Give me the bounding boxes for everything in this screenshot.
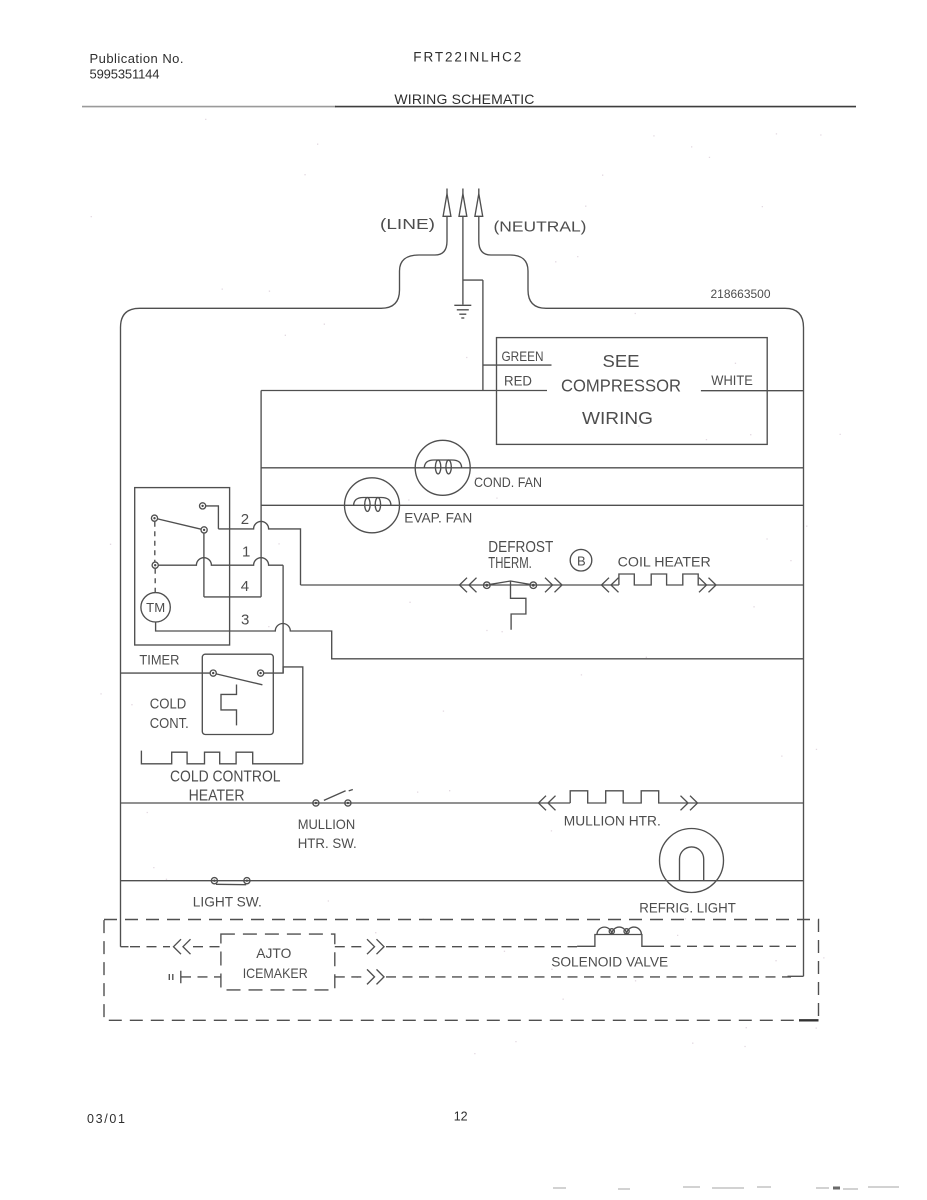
timer mechanical link (dashed) xyxy=(154,522,156,562)
wire: cold control feed from left border xyxy=(121,672,211,674)
svg-text:Publication No.: Publication No. xyxy=(90,51,184,66)
svg-text:12: 12 xyxy=(454,1110,468,1124)
svg-text:03/01: 03/01 xyxy=(87,1112,125,1126)
svg-text:ICEMAKER: ICEMAKER xyxy=(243,965,308,981)
svg-text:COLD: COLD xyxy=(150,696,187,713)
wire: line cord from left prong into top border xyxy=(381,217,447,309)
right border bottom hook xyxy=(788,975,804,977)
svg-text:RED: RED xyxy=(504,372,532,388)
connector chevrons left of mullion heater xyxy=(539,796,556,811)
wire: condenser fan line xyxy=(261,467,803,469)
timer terminal dot B xyxy=(151,515,157,521)
timer terminal dot C xyxy=(201,527,207,533)
wire: dot C drop xyxy=(203,533,205,597)
wire: red line xyxy=(261,390,547,392)
svg-text:COLD CONTROL: COLD CONTROL xyxy=(170,769,281,786)
svg-text:WHITE: WHITE xyxy=(711,372,753,388)
wire: terminal 3 line from TM with hop xyxy=(156,622,804,659)
wire: light line xyxy=(121,880,804,882)
wire: terminal 4 line xyxy=(204,596,261,598)
wire: evaporator fan line xyxy=(261,504,803,506)
svg-text:(NEUTRAL): (NEUTRAL) xyxy=(494,219,587,236)
plug prong ground (middle) xyxy=(459,189,467,217)
svg-text:WIRING: WIRING xyxy=(582,408,653,428)
svg-text:218663500: 218663500 xyxy=(711,287,771,301)
svg-text:GREEN: GREEN xyxy=(502,348,544,364)
svg-text:AJTO: AJTO xyxy=(256,945,291,961)
wire: neutral cord from right prong into top border xyxy=(479,217,546,309)
icemaker dashed box xyxy=(221,934,335,990)
svg-text:HTR. SW.: HTR. SW. xyxy=(298,835,357,851)
wire: green branch from ground stem xyxy=(463,279,483,281)
lamp REFRIG. LIGHT xyxy=(660,829,724,893)
timer terminal dot D xyxy=(152,562,158,568)
connector chevrons right of defrost therm xyxy=(545,578,562,593)
ground symbol xyxy=(454,305,471,318)
svg-text:1: 1 xyxy=(242,544,250,561)
svg-text:TM: TM xyxy=(146,601,165,615)
wire: mullion heater line xyxy=(121,802,571,804)
wire: cold control out to heater drop xyxy=(264,667,303,764)
compressor box U1 xyxy=(497,338,768,445)
svg-text:FRT22INLHC2: FRT22INLHC2 xyxy=(413,49,521,64)
timer switch blade B-C xyxy=(158,519,201,529)
light switch dot right xyxy=(244,878,250,884)
connector chevrons left of defrost therm xyxy=(460,578,477,593)
plug prong line (left) xyxy=(443,189,451,217)
defrost therm blade xyxy=(490,581,530,584)
cold control bellows element xyxy=(221,685,237,726)
wire: left border hook into icemaker xyxy=(121,946,129,948)
svg-text:THERM.: THERM. xyxy=(488,555,532,572)
defrost therm element xyxy=(511,581,526,630)
connector chevrons out B xyxy=(367,969,384,984)
svg-text:EVAP. FAN: EVAP. FAN xyxy=(404,510,472,526)
svg-text:COND. FAN: COND. FAN xyxy=(474,474,542,490)
svg-text:CONT.: CONT. xyxy=(150,715,189,732)
fresh food section dashed box xyxy=(104,920,819,1021)
wire: ground stem from middle prong xyxy=(462,217,464,305)
wire: red drop bus xyxy=(260,391,262,597)
timer box xyxy=(135,488,230,645)
wire: green drop to red line xyxy=(482,280,484,390)
main outline: top border right + right border xyxy=(546,308,804,976)
svg-text:WIRING SCHEMATIC: WIRING SCHEMATIC xyxy=(394,91,534,107)
mullion heater resistor xyxy=(570,791,803,803)
light switch dot left xyxy=(211,878,217,884)
cold control blade xyxy=(216,674,262,685)
mullion switch dot right xyxy=(345,800,351,806)
wire: icemaker feed dashed left xyxy=(130,946,170,948)
svg-text:SEE: SEE xyxy=(603,351,640,371)
wire: icemaker out B dashed xyxy=(335,976,362,978)
cold control box xyxy=(202,654,273,734)
main outline: top border left + left border xyxy=(121,308,382,946)
svg-text:(LINE): (LINE) xyxy=(380,216,435,233)
wire: terminal 2 lead xyxy=(206,506,219,529)
svg-text:REFRIG. LIGHT: REFRIG. LIGHT xyxy=(639,899,736,915)
connector chevrons into icemaker xyxy=(174,939,191,954)
wire: dashed run B to right border xyxy=(386,976,791,978)
defrost therm dot right xyxy=(530,582,537,589)
svg-text:HEATER: HEATER xyxy=(189,788,245,805)
wire: solenoid to right border dashed xyxy=(654,945,800,947)
water valve terminal symbol xyxy=(169,971,181,984)
svg-text:B: B xyxy=(577,554,586,569)
wire: icemaker line B dashed left xyxy=(181,976,221,978)
wire: defrost / coil heater line xyxy=(301,584,619,586)
svg-text:4: 4 xyxy=(241,578,249,595)
wire: white lead from compressor box to right border xyxy=(701,390,804,392)
coil heater resistor xyxy=(619,574,804,585)
cold control dot left xyxy=(210,670,216,676)
connector chevrons right of mullion heater xyxy=(681,796,698,811)
wire: icemaker feed dashed right xyxy=(193,946,221,948)
publication header text xyxy=(90,49,535,107)
svg-text:MULLION HTR.: MULLION HTR. xyxy=(564,812,661,828)
connector chevrons right of coil heater xyxy=(699,578,716,593)
svg-text:SOLENOID VALVE: SOLENOID VALVE xyxy=(551,954,668,970)
motor EVAP. FAN xyxy=(345,478,400,533)
terminal B circle xyxy=(570,549,592,571)
svg-text:COMPRESSOR: COMPRESSOR xyxy=(561,376,681,396)
solenoid valve coil xyxy=(577,927,654,946)
dashed box dark corner xyxy=(799,1019,819,1021)
timer motor TM xyxy=(141,593,170,622)
connector chevrons left of coil heater xyxy=(602,578,619,593)
wire: terminal 1 drop to cold control xyxy=(282,565,284,673)
timer terminal dot A xyxy=(200,503,206,509)
plug prong neutral (right) xyxy=(475,189,483,217)
mullion switch dot left xyxy=(313,800,319,806)
wire: green lead into compressor box xyxy=(483,364,552,366)
svg-text:MULLION: MULLION xyxy=(298,816,356,832)
cold control dot right xyxy=(258,670,264,676)
mullion switch blade xyxy=(324,790,353,801)
svg-text:5995351144: 5995351144 xyxy=(90,67,160,82)
wire: dashed run to solenoid xyxy=(386,946,577,948)
connector chevrons out A xyxy=(367,939,384,954)
svg-text:LIGHT SW.: LIGHT SW. xyxy=(193,893,262,909)
svg-text:2: 2 xyxy=(241,511,249,528)
light switch blade xyxy=(216,883,246,885)
scan speckle xyxy=(91,119,841,1053)
wire: terminal 1 line with hops xyxy=(158,558,283,565)
scan noise bottom xyxy=(553,1187,899,1189)
wire: icemaker out A dashed xyxy=(335,946,364,948)
cold control heater resistor xyxy=(141,751,302,764)
svg-text:COIL HEATER: COIL HEATER xyxy=(618,553,711,569)
svg-text:DEFROST: DEFROST xyxy=(488,539,553,556)
motor COND. FAN xyxy=(415,440,470,495)
header rule xyxy=(82,106,336,108)
wire: terminal 2 line with hop xyxy=(218,521,300,585)
svg-text:TIMER: TIMER xyxy=(139,652,179,668)
svg-text:3: 3 xyxy=(241,612,249,629)
defrost therm dot left xyxy=(484,582,491,589)
